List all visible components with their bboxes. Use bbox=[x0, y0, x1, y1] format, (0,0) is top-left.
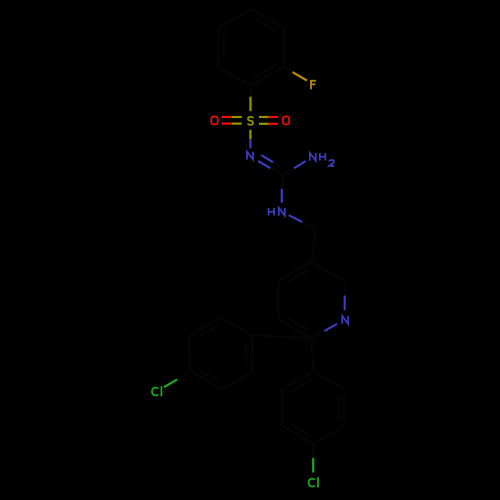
bond S-N1 bbox=[249, 130, 251, 149]
double bond S=O left bbox=[222, 117, 242, 124]
bond Cl-C left bbox=[164, 372, 190, 388]
label HN bbox=[269, 208, 285, 216]
bottom 4-chlorophenyl ring bbox=[282, 372, 344, 444]
label O left bbox=[211, 116, 217, 124]
bond NH-CH2 bbox=[289, 215, 316, 229]
bond C-NH2 bbox=[283, 161, 306, 175]
bond N-C2' pyridine bbox=[312, 324, 337, 339]
label Cl left bbox=[152, 386, 161, 396]
bond CH2-C5' bbox=[312, 229, 316, 262]
label O right bbox=[283, 116, 289, 124]
double bond N1=C guanidine bbox=[258, 155, 282, 175]
bond Cl-C bottom bbox=[312, 444, 314, 473]
benzene ring (2-fluorophenyl) bbox=[218, 10, 284, 86]
left 4-chlorophenyl ring bbox=[190, 317, 253, 389]
label S bbox=[248, 117, 253, 125]
label N1 bbox=[247, 152, 253, 160]
bond bottom-ring-C2' bbox=[312, 338, 314, 371]
bond C-NH bbox=[281, 175, 284, 202]
bond C6'-N pyridine bbox=[344, 281, 346, 310]
bond C1-S bbox=[249, 86, 252, 112]
pyridine ring carbons bbox=[278, 262, 344, 339]
bond left-ring-C2' bbox=[252, 335, 312, 338]
double bond S=O right bbox=[259, 117, 278, 124]
label F bbox=[311, 81, 316, 90]
bond C2-F bbox=[284, 67, 307, 81]
label N pyridine bbox=[342, 316, 348, 324]
label NH2 bbox=[310, 153, 334, 166]
label Cl bottom bbox=[309, 477, 318, 487]
